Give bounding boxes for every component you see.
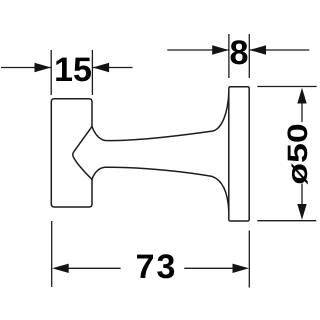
dim 8: left arrowhead (points right)	[212, 45, 229, 54]
wall plate (right rectangle, o50)	[229, 87, 249, 221]
dim 15: right leader line	[93, 67, 133, 69]
stem lower silhouette	[92, 167, 229, 211]
dim o50: vertical dimension line lower segment	[301, 184, 303, 208]
dim 8: right extension line	[248, 34, 250, 78]
dim label 73	[137, 254, 174, 278]
dim 15: left leader line	[1, 67, 51, 69]
dim o50: top arrowhead (points up)	[297, 88, 306, 104]
dim label 8	[231, 40, 248, 64]
stem upper silhouette	[92, 92, 229, 141]
hook front disc plate (left rounded rectangle)	[51, 99, 92, 207]
dim 15: right extension line	[91, 50, 93, 95]
dim 8: left leader line	[167, 49, 228, 51]
dim o50: bottom arrowhead (points down)	[297, 204, 306, 220]
dim 8: left extension line	[228, 34, 230, 78]
dim 73: left extension line	[51, 221, 53, 287]
dim 73: right dimension line segment	[184, 267, 233, 269]
dim 73: left arrowhead (points left)	[52, 264, 68, 273]
dim label 15	[56, 58, 91, 82]
dim 15: left arrowhead (points right)	[35, 63, 52, 72]
dim o50: bottom extension line	[257, 220, 316, 222]
cone silhouette (arrow-like notch on disc)	[73, 127, 92, 180]
dim o50: top extension line	[257, 86, 316, 88]
dim 8: right arrowhead (points left)	[250, 45, 267, 54]
dim 73: right extension line	[248, 231, 250, 288]
dim 8: right leader line	[250, 49, 310, 51]
dim 73: right arrowhead (points right)	[233, 264, 250, 273]
dim label o50 (rotated)	[287, 125, 307, 185]
dim 15: left extension line	[50, 50, 52, 95]
dim 73: left dimension line segment	[68, 267, 121, 269]
dim o50: vertical dimension line upper segment	[301, 100, 303, 122]
dim 15: right arrowhead (points left)	[93, 63, 110, 72]
